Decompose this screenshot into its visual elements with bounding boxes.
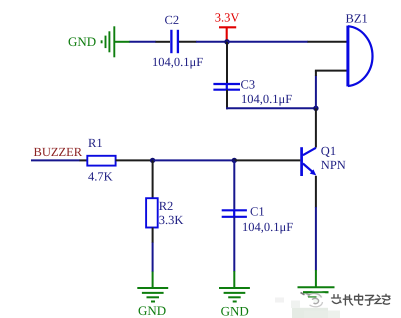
svg-text:C3: C3 [241,78,256,92]
svg-text:Q1: Q1 [321,144,336,158]
wire R2 bottom navy [152,243,154,273]
wire node B to base [234,159,300,161]
wire black into R1 [80,159,88,161]
wire black to C2 left plate [156,41,171,43]
wire R2 bottom black [152,228,154,244]
wire up top black stub [315,71,317,76]
svg-text:R1: R1 [88,136,103,150]
svg-text:3.3V: 3.3V [215,10,240,24]
transistor Q1 [302,147,316,176]
svg-text:BZ1: BZ1 [346,12,368,26]
transistor Q1 emitter arrow [310,169,316,175]
svg-text:GND: GND [221,304,249,318]
wire C1 bottom navy [233,217,235,272]
resistor R2 [146,198,158,227]
resistor R1 [87,156,115,166]
svg-text:3.3K: 3.3K [159,213,184,227]
watermark text strip [332,294,391,305]
ground under R2 [137,288,168,302]
wire black from C2 right plate [179,41,197,43]
node B junction dot [232,158,237,163]
wire elbow to transistor branch [226,107,316,109]
wire up from junction navy [315,76,317,109]
wire black to BZ1 pin 1 [308,41,347,43]
wire C1 bottom green [233,271,235,288]
svg-text:GND: GND [68,34,96,49]
svg-text:GND: GND [138,303,166,318]
node VCC junction dot [224,39,229,44]
wire navy to C2 [130,41,157,43]
wire emitter green [315,270,317,287]
svg-text:R2: R2 [159,199,174,213]
capacitor C2 [171,30,178,53]
wire C3 top lead [226,42,228,84]
watermark faint strips [292,308,328,318]
wire green stub from ground [114,41,130,43]
wire node B down navy to C1 [233,160,235,209]
capacitor C1 [222,210,247,217]
power 3.3V stem [226,27,228,41]
ground bar fragment visible through badge [303,291,329,293]
wire navy BUZZER lead [31,159,80,161]
wire R1 to node A [116,159,153,161]
wire emitter navy [315,207,317,271]
wire navy junction to right [227,41,308,43]
svg-text:NPN: NPN [321,158,346,172]
wire emitter black [315,176,317,208]
node junction dot at collector branch [313,106,318,111]
wire C3 bottom lead [226,90,228,110]
svg-text:104,0.1μF: 104,0.1μF [152,55,203,69]
buzzer BZ1 [348,26,373,87]
svg-text:4.7K: 4.7K [88,169,113,183]
svg-text:104,0.1μF: 104,0.1μF [241,92,292,106]
capacitor C3 [213,84,240,90]
wire node A down to R2 [152,160,154,198]
svg-text:C2: C2 [165,13,180,27]
svg-text:104,0.1μF: 104,0.1μF [242,220,293,234]
wire navy C2 to junction [196,41,227,43]
node A junction dot [150,158,155,163]
svg-text:C1: C1 [250,205,265,219]
wire navy node A to node B [153,159,235,161]
power 3.3V bar symbol [219,26,236,28]
wire to BZ1 pin 2 [315,70,347,72]
svg-text:BUZZER: BUZZER [34,145,83,159]
ground under C1 [219,288,250,302]
ground top-left power ground [102,26,115,57]
wire collector [315,108,317,147]
watermark logo badge [301,290,329,309]
ground under emitter [298,287,335,301]
wire R2 bottom green [152,272,154,288]
